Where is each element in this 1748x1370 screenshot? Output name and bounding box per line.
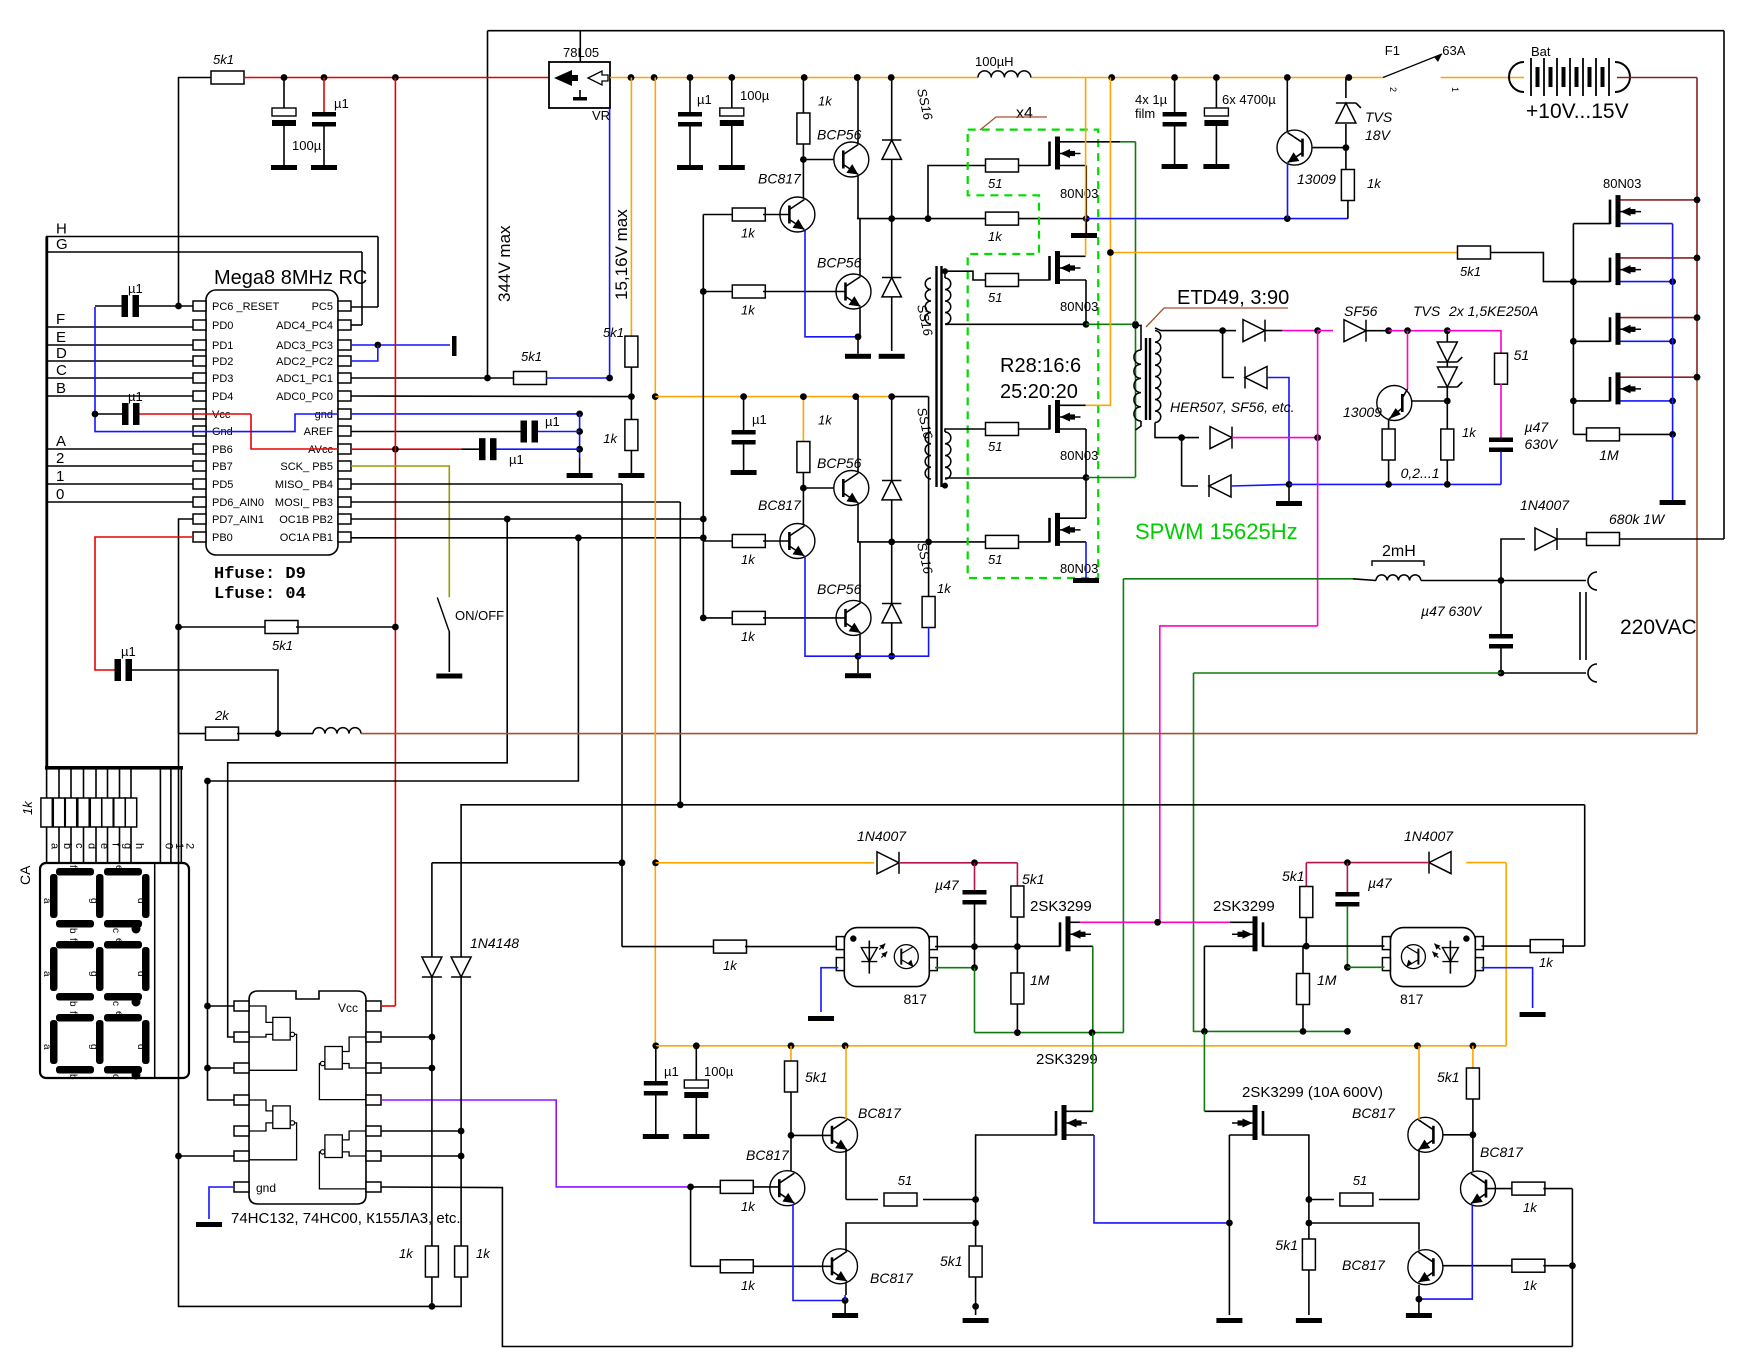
svg-text:AVcc: AVcc	[308, 444, 333, 456]
wire drain bus maroon	[1696, 78, 1698, 734]
wire pin1	[208, 1005, 241, 1007]
wire	[381, 1065, 435, 1072]
label x4	[980, 105, 1047, 130]
svg-text:1k: 1k	[1462, 425, 1477, 440]
svg-text:TVS: TVS	[1365, 109, 1393, 125]
wire	[1318, 330, 1333, 332]
resistor 5k1 pd7	[179, 621, 399, 654]
svg-text:1k: 1k	[937, 581, 952, 596]
svg-text:4x 1µ: 4x 1µ	[1135, 92, 1168, 107]
svg-text:f: f	[67, 938, 78, 941]
svg-text:2: 2	[183, 843, 195, 849]
svg-text:BCP56: BCP56	[817, 581, 862, 597]
wire orange m2 drain	[1060, 78, 1086, 257]
resistor 1k d7r	[1486, 1182, 1572, 1215]
ground	[1276, 484, 1302, 506]
wire src2	[1204, 946, 1252, 1033]
wire	[859, 308, 861, 337]
transformer T2 secondary	[1155, 331, 1161, 423]
resistor pack 1k	[20, 798, 137, 827]
wire coll d5	[846, 1220, 979, 1251]
svg-text:MOSI_ PB3: MOSI_ PB3	[275, 497, 333, 509]
ground	[1660, 500, 1686, 505]
svg-text:BC817: BC817	[1352, 1105, 1396, 1121]
diode D2	[1245, 367, 1267, 389]
node	[800, 156, 807, 163]
wire gate	[1570, 338, 1610, 345]
resistor 1k optoL	[714, 940, 747, 973]
wire ADC1	[351, 375, 514, 382]
svg-text:1k: 1k	[20, 800, 35, 815]
svg-text:PD2: PD2	[212, 356, 233, 368]
resistor 1k coll	[797, 78, 833, 145]
svg-text:1: 1	[1450, 87, 1460, 92]
resistor 5k1 adc1	[514, 349, 547, 385]
transistor BC817 d7	[1408, 1117, 1443, 1152]
wire	[381, 1128, 465, 1135]
wire	[857, 176, 859, 219]
wire	[1136, 421, 1142, 430]
mosfet 2SK3299 1	[1060, 916, 1091, 951]
wire drain maroon	[1621, 197, 1701, 204]
label 344V max	[495, 225, 514, 302]
node	[842, 1042, 849, 1049]
svg-text:d: d	[135, 1044, 146, 1050]
svg-text:100µ: 100µ	[704, 1064, 734, 1079]
wire blue emitters	[805, 557, 861, 660]
terminal out2	[1588, 664, 1597, 682]
resistor 1k colB	[922, 581, 952, 628]
svg-text:5k1: 5k1	[1022, 871, 1045, 887]
wire green 220 down	[1193, 673, 1195, 1032]
wire bus2 orange	[655, 396, 891, 398]
diode SF56	[1344, 303, 1378, 342]
label Vcc	[338, 1001, 358, 1015]
svg-text:2SK3299 (10A 600V): 2SK3299 (10A 600V)	[1242, 1084, 1383, 1101]
wire	[431, 863, 433, 957]
svg-text:100µ: 100µ	[292, 138, 322, 153]
wire	[854, 74, 861, 143]
diode D1 HER507	[1223, 320, 1283, 342]
svg-text:5k1: 5k1	[272, 638, 293, 653]
diode TVS a	[1437, 342, 1462, 362]
mosfet 2SK3299 3	[1056, 1105, 1087, 1140]
label TVS 2x	[1413, 303, 1539, 319]
node	[942, 268, 948, 274]
label ETD49	[1146, 287, 1289, 327]
wire magenta vert	[1317, 331, 1319, 626]
svg-text:1k: 1k	[741, 226, 756, 241]
node	[281, 74, 399, 81]
node	[854, 74, 861, 81]
wire blue src3	[1067, 1135, 1233, 1226]
transformer T1 primary b	[925, 432, 931, 479]
wire src4	[1229, 1135, 1252, 1223]
optocoupler 817 L	[836, 928, 937, 1007]
wire	[700, 215, 707, 295]
resistor 51 m1	[986, 159, 1019, 191]
svg-text:80N03: 80N03	[1060, 299, 1098, 314]
svg-text:µ1: µ1	[545, 414, 560, 429]
wire ADC0 row	[351, 395, 631, 398]
ic U2 pins	[234, 1001, 381, 1192]
node	[1284, 74, 1291, 81]
svg-text:PD4: PD4	[212, 391, 233, 403]
wire frame top	[460, 804, 1584, 806]
wire	[945, 321, 1089, 328]
wire Vcc red top	[243, 77, 549, 79]
battery Bat	[1509, 44, 1643, 123]
svg-text:1k: 1k	[1523, 1200, 1538, 1215]
capacitor u1	[311, 78, 349, 171]
wire green row R	[1194, 1028, 1351, 1035]
mosfet 80N03 4	[1050, 513, 1099, 576]
resistor 1k 13009	[1341, 148, 1382, 219]
svg-text:80N03: 80N03	[1060, 561, 1098, 576]
wire OC1A	[208, 534, 704, 1100]
node	[1171, 74, 1178, 81]
svg-text:x4: x4	[1016, 105, 1033, 122]
label SS16	[914, 303, 936, 338]
wire orange	[845, 1046, 847, 1119]
svg-text:1k: 1k	[741, 1278, 756, 1293]
svg-text:BC817: BC817	[870, 1270, 914, 1286]
wire	[1263, 945, 1306, 947]
svg-text:2mH: 2mH	[1382, 543, 1416, 560]
svg-text:PB7: PB7	[212, 461, 233, 473]
resistor 5k1	[211, 52, 244, 84]
capacitor u47 630V	[1489, 419, 1559, 452]
transistor BC817	[780, 197, 815, 232]
wire	[859, 634, 861, 656]
diode TVS 18V	[1336, 78, 1393, 148]
svg-text:e: e	[113, 938, 124, 944]
node	[175, 624, 182, 1160]
resistor 1k d6	[691, 1260, 832, 1293]
diode 1N4007 hv	[1520, 497, 1570, 550]
resistor 1k da	[399, 1246, 438, 1306]
wire OC1B	[228, 516, 704, 1037]
svg-text:PB6: PB6	[212, 444, 233, 456]
svg-text:Mega8 8MHz RC: Mega8 8MHz RC	[214, 267, 367, 289]
wire	[1132, 322, 1141, 350]
wire	[1060, 478, 1086, 519]
svg-text:51: 51	[898, 1173, 912, 1188]
wire frame drive	[381, 1187, 1572, 1347]
wire	[1490, 253, 1573, 282]
wire	[1018, 428, 1050, 430]
transistor BCP56 lo	[836, 274, 871, 309]
wire	[925, 397, 932, 598]
svg-text:1M: 1M	[1599, 447, 1619, 463]
diode 1N4007 L	[857, 828, 907, 874]
wire drain2	[1230, 921, 1253, 923]
node	[1570, 278, 1577, 285]
wire	[1444, 331, 1451, 405]
resistor 1k db	[455, 1246, 492, 1277]
wire	[1460, 77, 1519, 79]
svg-text:0: 0	[56, 486, 64, 503]
svg-text:80N03: 80N03	[1060, 186, 1098, 201]
display digit 2	[50, 941, 150, 1007]
wire	[431, 977, 433, 1246]
svg-text:5k1: 5k1	[1275, 1237, 1298, 1253]
capacitor u1 avcc	[461, 438, 579, 467]
svg-text:1k: 1k	[741, 303, 756, 318]
svg-text:B: B	[56, 380, 66, 397]
svg-text:µ47: µ47	[1525, 419, 1550, 435]
node	[1498, 577, 1505, 584]
mosfet 80N03 R2	[1610, 253, 1641, 285]
transistor BCP56 hi	[834, 471, 869, 506]
wire magenta	[1282, 327, 1321, 334]
wire	[1472, 1135, 1474, 1171]
transistor BC817 d3	[770, 1171, 805, 1206]
svg-text:µ47 630V: µ47 630V	[1421, 603, 1483, 619]
capacitor 100u	[271, 78, 322, 171]
ic U1 Mega8	[206, 267, 367, 555]
svg-text:1k: 1k	[1367, 176, 1382, 191]
label BCP56 lo	[817, 255, 862, 271]
wire	[788, 1092, 795, 1139]
wire	[928, 166, 986, 219]
transformer T2 core	[1146, 338, 1150, 420]
transistor BC817 d5	[823, 1249, 858, 1284]
wire	[790, 1135, 792, 1170]
svg-text:1k: 1k	[476, 1246, 491, 1261]
svg-text:2SK3299: 2SK3299	[1030, 898, 1092, 915]
wire	[432, 1277, 461, 1306]
resistor 5k1 gL	[940, 1246, 982, 1277]
regulator VR 78L05	[549, 45, 610, 123]
resistor 51 m2	[986, 274, 1019, 306]
svg-text:PD6_AIN0: PD6_AIN0	[212, 497, 264, 509]
svg-text:BC817: BC817	[746, 1147, 790, 1163]
resistor 5k1 optoR	[1282, 868, 1313, 918]
ground	[832, 1301, 858, 1319]
resistor 1M optoR	[1297, 946, 1337, 1031]
svg-text:g: g	[88, 1044, 99, 1050]
transistor 13009 b	[1343, 386, 1412, 421]
svg-text:CA: CA	[17, 865, 33, 885]
wire	[1501, 580, 1586, 582]
resistor 1k rowA	[986, 212, 1019, 244]
svg-text:Vcc: Vcc	[338, 1001, 358, 1015]
svg-text:µ47: µ47	[935, 877, 960, 893]
svg-text:ETD49, 3:90: ETD49, 3:90	[1177, 287, 1289, 309]
label 2SK3299 4	[1242, 1084, 1383, 1101]
resistor 51 dL	[846, 1173, 979, 1206]
resistor 1k d8r	[1443, 1259, 1573, 1293]
svg-text:15,16V max: 15,16V max	[612, 209, 631, 300]
svg-text:R28:16:6: R28:16:6	[1000, 355, 1081, 377]
resistor 51 out	[1495, 347, 1530, 384]
wire magenta to bridge	[1160, 626, 1318, 922]
wire	[935, 946, 1017, 948]
svg-text:PB0: PB0	[212, 532, 233, 544]
wire G wrap	[351, 252, 362, 325]
wire bus1 orange	[610, 77, 1383, 79]
svg-text:µ1: µ1	[509, 452, 524, 467]
node	[888, 74, 895, 81]
wire source blue	[1621, 278, 1677, 285]
transformer T1 drive a	[945, 278, 951, 324]
svg-text:g: g	[88, 971, 99, 977]
wire gnd blue U2	[196, 1187, 234, 1227]
mosfet 80N03 R3	[1610, 313, 1641, 345]
svg-text:F1: F1	[1385, 43, 1400, 58]
wire	[1584, 805, 1586, 946]
wire	[546, 375, 613, 382]
wire coll magenta	[1407, 331, 1409, 389]
inductor	[278, 728, 1697, 734]
svg-text:PD7_AIN1: PD7_AIN1	[212, 514, 264, 526]
wire out row	[857, 539, 986, 546]
svg-text:220VAC: 220VAC	[1620, 616, 1697, 639]
wire	[791, 1134, 832, 1136]
label fuses	[214, 565, 306, 604]
node	[1213, 74, 1220, 81]
svg-text:f: f	[67, 1011, 78, 1014]
mosfet 2SK3299 2	[1232, 916, 1263, 951]
wire orange d7	[1418, 1046, 1420, 1119]
capacitor u1 cellB	[731, 393, 767, 475]
wire	[857, 504, 859, 542]
wire	[888, 393, 928, 400]
wire	[844, 1282, 847, 1301]
transformer T1 drive b	[945, 432, 951, 479]
svg-text:Bat: Bat	[1531, 44, 1551, 59]
svg-text:PD5: PD5	[212, 479, 233, 491]
svg-text:817: 817	[1400, 991, 1424, 1007]
box x4 dashed	[968, 130, 1098, 578]
wire green branch	[1086, 321, 1139, 328]
ground	[845, 354, 871, 359]
svg-text:ADC0_PC0: ADC0_PC0	[276, 391, 333, 403]
wire	[1060, 141, 1120, 143]
wire	[1470, 1099, 1477, 1138]
transistor BC817	[780, 524, 815, 559]
switch ON/OFF	[436, 598, 504, 679]
svg-text:Lfuse: 04: Lfuse: 04	[214, 585, 306, 604]
mosfet 80N03 R1	[1610, 195, 1641, 227]
inductor 100uH	[975, 54, 1031, 78]
capacitor u1 pb0	[115, 644, 136, 681]
svg-text:+10V...15V: +10V...15V	[1526, 100, 1629, 123]
wire battery right	[1643, 77, 1697, 79]
transistor BC817 d8	[1461, 1171, 1496, 1206]
resistor 1k base2	[703, 285, 845, 318]
svg-text:51: 51	[988, 552, 1002, 567]
capacitor u1 reset	[95, 281, 193, 317]
svg-text:BC817: BC817	[858, 1105, 902, 1121]
wire green row L	[975, 1029, 1124, 1036]
wire	[1443, 1134, 1473, 1136]
label SS16	[914, 406, 936, 441]
diode 1N4148 a	[422, 957, 442, 977]
svg-text:PD1: PD1	[212, 340, 233, 352]
svg-text:0: 0	[162, 843, 174, 849]
capacitor u47 L	[935, 863, 987, 947]
wire	[1067, 1033, 1093, 1112]
svg-text:ADC4_PC4: ADC4_PC4	[276, 320, 333, 332]
wire green src	[1071, 946, 1093, 1032]
svg-text:5k1: 5k1	[213, 52, 234, 67]
wire	[618, 450, 644, 478]
svg-text:Vcc: Vcc	[212, 409, 231, 421]
label BCP56	[817, 127, 862, 143]
transformer T1 primary a	[925, 278, 931, 324]
wire	[963, 1277, 989, 1323]
svg-text:5k1: 5k1	[805, 1069, 828, 1085]
wire row863	[432, 862, 622, 864]
svg-text:5k1: 5k1	[521, 349, 542, 364]
svg-text:51: 51	[988, 290, 1002, 305]
svg-text:18V: 18V	[1365, 127, 1392, 143]
node	[651, 74, 658, 81]
ground	[845, 673, 871, 678]
svg-text:6x 4700µ: 6x 4700µ	[1222, 92, 1276, 107]
wire green optoR	[1347, 966, 1384, 968]
svg-text:PD0: PD0	[212, 320, 233, 332]
wire	[852, 393, 859, 472]
svg-text:C: C	[56, 362, 67, 379]
wire	[974, 947, 976, 968]
resistor 2k	[179, 708, 282, 740]
wire purple	[381, 1100, 694, 1190]
svg-text:1: 1	[56, 468, 64, 485]
svg-text:13009: 13009	[1343, 404, 1382, 420]
node	[1345, 74, 1352, 81]
wire blue src row	[1086, 215, 1348, 222]
svg-text:e: e	[113, 865, 124, 871]
svg-text:1N4007: 1N4007	[1520, 497, 1570, 513]
svg-text:F: F	[56, 311, 65, 328]
mosfet 80N03 2	[1050, 251, 1099, 314]
wire green out2	[1122, 579, 1124, 1033]
svg-text:VR: VR	[592, 108, 610, 123]
wire	[1018, 215, 1090, 222]
wire	[178, 627, 180, 734]
resistor 1k divider	[603, 420, 638, 451]
wire	[802, 144, 804, 160]
label 220VAC	[1620, 616, 1697, 639]
wire	[628, 367, 635, 422]
svg-text:80N03: 80N03	[1060, 448, 1098, 463]
mosfet 2SK3299 4	[1232, 1105, 1263, 1140]
svg-text:1k: 1k	[988, 229, 1003, 244]
wire	[1306, 945, 1384, 947]
svg-text:SCK_ PB5: SCK_ PB5	[280, 461, 333, 473]
svg-text:1k: 1k	[723, 958, 738, 973]
svg-text:PC6 _RESET: PC6 _RESET	[212, 301, 280, 313]
label BC817 d4	[858, 1105, 902, 1121]
diode SS16 a1	[882, 78, 901, 278]
wire green row2	[1086, 477, 1136, 479]
svg-text:d: d	[135, 971, 146, 977]
wires to display	[47, 827, 145, 863]
svg-text:MISO_ PB4: MISO_ PB4	[275, 479, 333, 491]
wire	[1672, 434, 1674, 500]
wire VR out blue	[609, 108, 611, 378]
wire ADC3 blue	[351, 342, 450, 361]
svg-text:1k: 1k	[818, 413, 833, 428]
svg-text:ON/OFF: ON/OFF	[455, 608, 504, 623]
transformer T2 primary	[1134, 350, 1141, 421]
svg-text:µ47: µ47	[1368, 875, 1393, 891]
wire drain maroon	[1621, 374, 1701, 381]
capacitor u1 bus1	[677, 78, 712, 171]
